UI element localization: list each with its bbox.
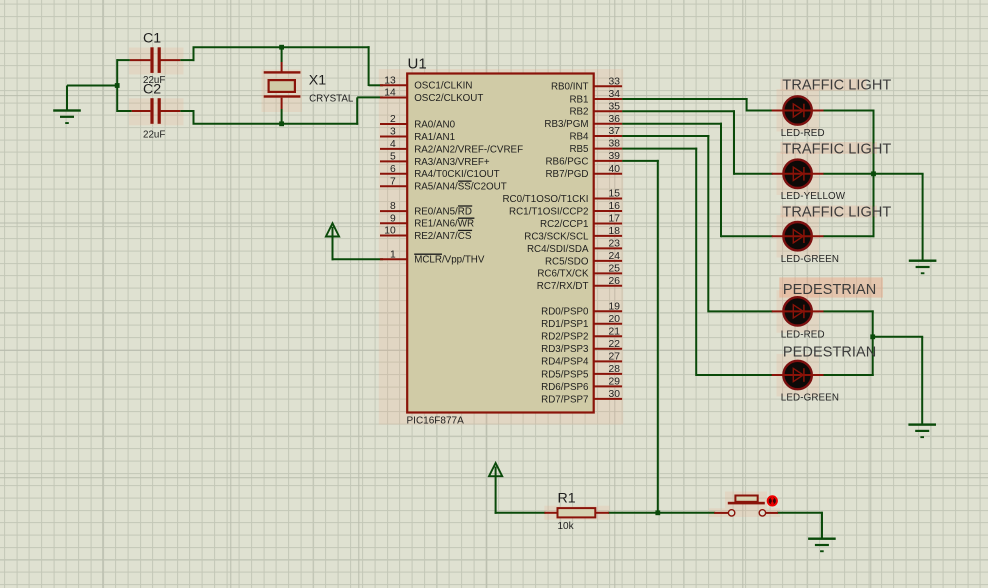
LED3 traffic green bbox=[783, 222, 811, 250]
highlight wash crystal X1 bbox=[262, 70, 303, 113]
wire power arrow to R1 bbox=[495, 476, 497, 514]
svg-text:CRYSTAL: CRYSTAL bbox=[309, 94, 354, 105]
pin 23 stub bbox=[594, 247, 622, 249]
svg-text:7: 7 bbox=[390, 176, 396, 187]
svg-text:RD0/PSP0: RD0/PSP0 bbox=[541, 307, 589, 318]
pin 9 stub bbox=[380, 222, 407, 224]
svg-text:C1: C1 bbox=[143, 30, 161, 46]
svg-text:RD1/PSP1: RD1/PSP1 bbox=[541, 319, 588, 330]
svg-text:19: 19 bbox=[609, 301, 621, 312]
wire pedestrian cathode bus vertical bbox=[872, 310, 874, 376]
highlight wash capacitor C2 bbox=[129, 98, 184, 125]
power symbol for R1 bbox=[489, 463, 502, 476]
pin 27 stub bbox=[594, 360, 622, 362]
wire up to top bus bbox=[193, 47, 195, 61]
svg-text:C2: C2 bbox=[143, 82, 161, 98]
svg-text:PEDESTRIAN: PEDESTRIAN bbox=[783, 282, 876, 298]
wire traffic bus to ground bbox=[874, 173, 924, 175]
svg-text:22uF: 22uF bbox=[143, 130, 165, 141]
LED2 traffic yellow bbox=[783, 160, 811, 188]
pin 13 stub bbox=[380, 84, 407, 86]
svg-text:U1: U1 bbox=[408, 56, 427, 73]
svg-text:MCLR/Vpp/THV: MCLR/Vpp/THV bbox=[414, 255, 485, 266]
wire into pin 13 bbox=[369, 84, 383, 86]
svg-text:R1: R1 bbox=[558, 491, 576, 507]
svg-text:OSC1/CLKIN: OSC1/CLKIN bbox=[414, 81, 472, 92]
LED4 pedestrian red bbox=[783, 297, 811, 325]
crystal X1 bbox=[281, 62, 283, 72]
svg-text:RD3/PSP3: RD3/PSP3 bbox=[541, 344, 589, 355]
pin 16 stub bbox=[594, 210, 622, 212]
highlight wash label TRAFFIC LIGHT 3 bbox=[781, 206, 878, 218]
ground (pedestrian) bbox=[921, 337, 923, 425]
wire pin 35 to LED2 bbox=[622, 110, 735, 112]
svg-text:35: 35 bbox=[609, 101, 621, 112]
svg-text:10: 10 bbox=[384, 226, 396, 237]
capacitor C2 bbox=[132, 110, 151, 112]
svg-text:RB1: RB1 bbox=[569, 94, 588, 105]
svg-text:RC7/RX/DT: RC7/RX/DT bbox=[537, 281, 589, 292]
svg-text:RE2/AN7/CS: RE2/AN7/CS bbox=[414, 231, 472, 242]
pin 26 stub bbox=[594, 285, 622, 287]
svg-text:RC1/T1OSI/CCP2: RC1/T1OSI/CCP2 bbox=[509, 206, 589, 217]
LED5 pedestrian green bbox=[783, 361, 811, 389]
svg-text:16: 16 bbox=[609, 201, 621, 212]
svg-text:RD5/PSP5: RD5/PSP5 bbox=[541, 369, 589, 380]
pin 4 stub bbox=[380, 148, 407, 150]
wire LED3 cathode bbox=[823, 235, 874, 237]
pin 38 stub bbox=[594, 148, 622, 150]
pin 14 stub bbox=[380, 97, 407, 99]
pin 8 stub bbox=[380, 210, 407, 212]
svg-text:RC2/CCP1: RC2/CCP1 bbox=[540, 219, 588, 230]
svg-text:RC6/TX/CK: RC6/TX/CK bbox=[537, 269, 589, 280]
svg-text:10k: 10k bbox=[558, 521, 575, 532]
wire pin 36 to LED3 bbox=[622, 123, 722, 125]
svg-text:RA0/AN0: RA0/AN0 bbox=[414, 119, 455, 130]
wire up to pin 14 bbox=[356, 97, 358, 124]
pin 33 stub bbox=[594, 85, 622, 87]
chip body U1 PIC16F877A bbox=[407, 74, 594, 413]
junction node pedestrian cathode bbox=[870, 334, 875, 339]
svg-text:18: 18 bbox=[609, 226, 621, 237]
pin 3 stub bbox=[380, 135, 407, 137]
svg-text:36: 36 bbox=[609, 114, 621, 125]
svg-text:28: 28 bbox=[609, 364, 621, 375]
svg-text:RA4/T0CKI/C1OUT: RA4/T0CKI/C1OUT bbox=[414, 169, 499, 180]
svg-text:PIC16F877A: PIC16F877A bbox=[407, 415, 465, 426]
pin 17 stub bbox=[594, 222, 622, 224]
svg-text:40: 40 bbox=[609, 164, 621, 175]
wire traffic cathode bus vertical bbox=[873, 110, 875, 238]
wire into C1 left bbox=[117, 59, 130, 61]
svg-text:RC4/SDI/SDA: RC4/SDI/SDA bbox=[527, 244, 589, 255]
wire pin 38 to LED5 bbox=[622, 148, 697, 150]
wire pin 37 to LED4 bbox=[622, 135, 709, 137]
wire pedestrian bus to ground bbox=[873, 336, 924, 338]
svg-text:RB7/PGD: RB7/PGD bbox=[545, 169, 588, 180]
wire top bus bbox=[193, 46, 370, 48]
wire into C2 left bbox=[117, 110, 132, 112]
svg-text:20: 20 bbox=[609, 314, 621, 325]
svg-text:2: 2 bbox=[390, 114, 396, 125]
wire into pin 14 bbox=[357, 96, 383, 98]
svg-text:RD4/PSP4: RD4/PSP4 bbox=[541, 357, 589, 368]
junction node crystal top bbox=[279, 45, 284, 50]
button terminal right bbox=[759, 510, 765, 516]
svg-text:39: 39 bbox=[609, 151, 621, 162]
svg-text:RD7/PSP7: RD7/PSP7 bbox=[541, 394, 588, 405]
highlight wash label TRAFFIC LIGHT 2 bbox=[781, 142, 878, 154]
svg-text:RA2/AN2/VREF-/CVREF: RA2/AN2/VREF-/CVREF bbox=[414, 144, 523, 155]
pin 37 stub bbox=[594, 135, 622, 137]
svg-text:TRAFFIC LIGHT: TRAFFIC LIGHT bbox=[782, 205, 891, 221]
svg-text:LED-RED: LED-RED bbox=[781, 330, 825, 341]
button leads bbox=[714, 512, 728, 514]
pin 22 stub bbox=[594, 348, 622, 350]
svg-text:RB6/PGC: RB6/PGC bbox=[545, 156, 588, 167]
svg-text:RE0/AN5/RD: RE0/AN5/RD bbox=[414, 207, 472, 218]
svg-text:17: 17 bbox=[609, 214, 621, 225]
svg-text:14: 14 bbox=[384, 88, 396, 99]
svg-text:RE1/AN6/WR: RE1/AN6/WR bbox=[414, 219, 474, 230]
highlight wash button bbox=[709, 508, 780, 517]
wire R1 to button bbox=[608, 512, 715, 514]
pin 29 stub bbox=[594, 385, 622, 387]
svg-text:RB0/INT: RB0/INT bbox=[551, 82, 589, 93]
svg-text:RA1/AN1: RA1/AN1 bbox=[414, 132, 455, 143]
pin 20 stub bbox=[594, 323, 622, 325]
svg-text:3: 3 bbox=[390, 127, 396, 138]
svg-text:37: 37 bbox=[609, 126, 621, 137]
svg-text:8: 8 bbox=[390, 201, 396, 212]
pin 24 stub bbox=[594, 260, 622, 262]
svg-text:30: 30 bbox=[609, 389, 621, 400]
svg-text:LED-GREEN: LED-GREEN bbox=[781, 254, 839, 265]
svg-text:23: 23 bbox=[609, 238, 621, 249]
svg-text:1: 1 bbox=[390, 249, 396, 260]
svg-text:LED-RED: LED-RED bbox=[781, 128, 825, 139]
svg-text:RA3/AN3/VREF+: RA3/AN3/VREF+ bbox=[414, 157, 490, 168]
pin 39 stub bbox=[594, 160, 622, 162]
svg-text:RB4: RB4 bbox=[569, 131, 589, 142]
svg-text:25: 25 bbox=[609, 263, 621, 274]
highlight wash LED4 bbox=[777, 290, 820, 333]
svg-text:13: 13 bbox=[384, 75, 396, 86]
pin 7 stub bbox=[380, 185, 407, 187]
svg-text:PEDESTRIAN: PEDESTRIAN bbox=[783, 345, 876, 361]
pin 15 stub bbox=[594, 198, 622, 200]
highlight wash resistor R1 bbox=[544, 506, 609, 520]
wire button to ground bbox=[777, 512, 823, 514]
pin 6 stub bbox=[380, 173, 407, 175]
svg-text:LED-YELLOW: LED-YELLOW bbox=[781, 191, 846, 202]
svg-text:X1: X1 bbox=[309, 73, 326, 89]
junction node C1/C2 mid bbox=[115, 83, 120, 88]
wire down to pin 13 bbox=[368, 46, 370, 86]
svg-text:RD2/PSP2: RD2/PSP2 bbox=[541, 332, 588, 343]
button indicator bbox=[768, 496, 777, 505]
pin 18 stub bbox=[594, 235, 622, 237]
highlight wash label PEDESTRIAN 1 bbox=[779, 277, 883, 297]
svg-text:6: 6 bbox=[390, 164, 396, 175]
wire LED1 cathode bbox=[823, 110, 874, 112]
highlight wash label TRAFFIC LIGHT 1 bbox=[781, 79, 867, 91]
svg-text:TRAFFIC LIGHT: TRAFFIC LIGHT bbox=[782, 78, 891, 94]
junction node button/R1/RB6 bbox=[655, 510, 660, 515]
svg-text:RB2: RB2 bbox=[569, 107, 588, 118]
wire C1 right bbox=[180, 59, 194, 61]
ground (oscillator) bbox=[66, 86, 68, 111]
junction node traffic cathode bbox=[871, 171, 876, 176]
svg-text:29: 29 bbox=[609, 376, 621, 387]
svg-text:22: 22 bbox=[609, 339, 621, 350]
svg-text:27: 27 bbox=[609, 351, 621, 362]
ground (traffic lights) bbox=[922, 174, 924, 261]
svg-text:21: 21 bbox=[609, 326, 621, 337]
pin 28 stub bbox=[594, 373, 622, 375]
highlight wash LED3 bbox=[777, 215, 820, 258]
svg-text:9: 9 bbox=[390, 213, 396, 224]
wire LED4 cathode bbox=[823, 310, 873, 312]
pin 21 stub bbox=[594, 335, 622, 337]
wire crystal top stub bbox=[281, 47, 283, 62]
svg-text:33: 33 bbox=[609, 76, 621, 87]
svg-text:15: 15 bbox=[609, 189, 621, 200]
wire bottom bus bbox=[193, 123, 359, 125]
svg-text:24: 24 bbox=[609, 251, 621, 262]
svg-text:4: 4 bbox=[390, 139, 396, 150]
pin 5 stub bbox=[380, 160, 407, 162]
wire pin 39 down to button net bbox=[622, 160, 659, 162]
svg-text:RC5/SDO: RC5/SDO bbox=[545, 256, 589, 267]
pin 2 stub bbox=[380, 123, 407, 125]
svg-text:RA5/AN4/SS/C2OUT: RA5/AN4/SS/C2OUT bbox=[414, 182, 507, 193]
pin 40 stub bbox=[594, 173, 622, 175]
svg-text:RB3/PGM: RB3/PGM bbox=[544, 119, 588, 130]
button actuator bbox=[728, 502, 765, 505]
pin 30 stub bbox=[594, 398, 622, 400]
pin 25 stub bbox=[594, 272, 622, 274]
wire pin 34 to LED1 bbox=[622, 98, 748, 100]
LED1 traffic red bbox=[783, 96, 811, 124]
wire LED5 cathode bbox=[823, 374, 873, 376]
wire left vertical C1 to C2 bbox=[116, 59, 118, 112]
pin 1 stub bbox=[380, 258, 407, 260]
wire LED2 cathode bbox=[823, 173, 874, 175]
junction node crystal bottom bbox=[279, 121, 284, 126]
highlight wash LED5 bbox=[777, 354, 820, 397]
highlight wash LED2 bbox=[777, 153, 820, 196]
svg-text:RB5: RB5 bbox=[569, 144, 589, 155]
resistor R1 bbox=[544, 512, 558, 514]
svg-text:38: 38 bbox=[609, 139, 621, 150]
svg-text:26: 26 bbox=[609, 276, 621, 287]
wire crystal bottom stub bbox=[281, 109, 283, 125]
svg-text:RC3/SCK/SCL: RC3/SCK/SCL bbox=[524, 231, 589, 242]
power symbol for MCLR bbox=[326, 223, 339, 236]
svg-text:TRAFFIC LIGHT: TRAFFIC LIGHT bbox=[782, 141, 891, 157]
wire ground to C1/C2 midpoint bbox=[67, 85, 118, 87]
pin 36 stub bbox=[594, 123, 622, 125]
ground (button) bbox=[821, 513, 823, 539]
pin 34 stub bbox=[594, 98, 622, 100]
pin 19 stub bbox=[594, 310, 622, 312]
svg-text:RC0/T1OSO/T1CKI: RC0/T1OSO/T1CKI bbox=[502, 194, 588, 205]
svg-text:OSC2/CLKOUT: OSC2/CLKOUT bbox=[414, 93, 483, 104]
button terminal left bbox=[728, 510, 734, 516]
pin 10 stub bbox=[380, 235, 407, 237]
highlight wash LED1 bbox=[777, 89, 820, 132]
wire C2 right bbox=[180, 110, 194, 112]
highlight wash capacitor C1 bbox=[129, 48, 184, 75]
svg-text:5: 5 bbox=[390, 151, 396, 162]
wire down to bottom bus bbox=[193, 110, 195, 124]
svg-text:LED-GREEN: LED-GREEN bbox=[781, 393, 839, 404]
wire power arrow to pin 1 bbox=[332, 236, 334, 260]
capacitor C1 bbox=[130, 59, 151, 61]
svg-text:34: 34 bbox=[609, 89, 621, 100]
pin 35 stub bbox=[594, 110, 622, 112]
svg-text:RD6/PSP6: RD6/PSP6 bbox=[541, 382, 589, 393]
highlight wash IC U1 bbox=[379, 69, 623, 425]
